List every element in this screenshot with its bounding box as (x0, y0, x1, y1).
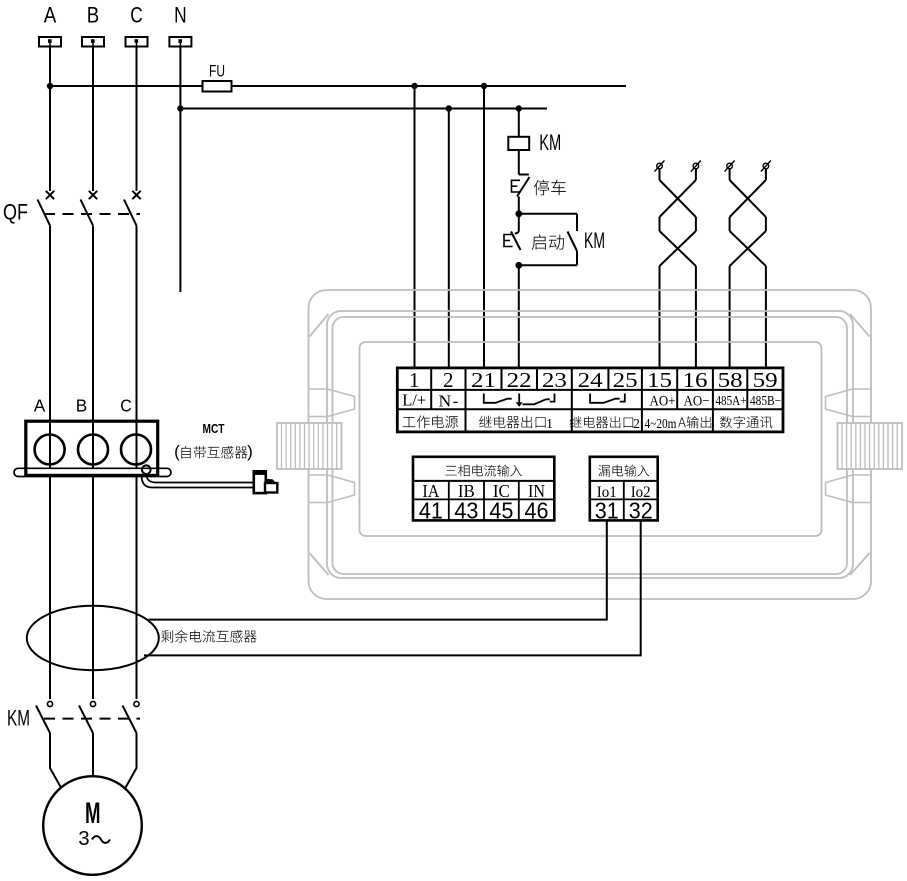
wire A to motor (50, 733, 62, 789)
svg-text:(: ( (174, 442, 180, 461)
junction bus1-term1 (411, 83, 417, 89)
housing corner cut TL (310, 314, 329, 337)
svg-text:25: 25 (613, 368, 638, 392)
relay output 1 contact symbol (484, 394, 512, 403)
wire to terminal 21 (483, 86, 485, 368)
housing clip tabs left (328, 389, 355, 417)
svg-text:B: B (87, 3, 100, 28)
wire parallel bottom (519, 264, 577, 266)
svg-text:43: 43 (454, 498, 478, 524)
svg-text:C: C (130, 3, 143, 28)
wire to terminal 22 (518, 265, 520, 368)
wire phase B top (92, 47, 94, 192)
wire to terminal 2 (448, 109, 450, 369)
svg-text:FU: FU (209, 63, 225, 81)
residual current transformer (27, 606, 159, 670)
terminal strip main (397, 368, 783, 432)
start button 启动 (NO) (515, 214, 519, 234)
MCT cable (147, 475, 255, 483)
wire phase A mid (49, 226, 51, 699)
twisted pair 2 (727, 163, 733, 169)
wire KM-aux stub bottom (576, 251, 578, 265)
twisted pair 1 (657, 163, 663, 169)
svg-text:AO+: AO+ (650, 394, 676, 410)
svg-text:B: B (76, 396, 88, 416)
wire phase C top (136, 47, 138, 192)
label 数字通讯 (720, 416, 773, 428)
label 继电器出口2 (570, 416, 634, 428)
svg-text:A: A (44, 3, 57, 28)
wire stop to node (518, 197, 520, 214)
svg-text:41: 41 (419, 498, 443, 524)
wire bus2 to KM coil (518, 109, 520, 137)
contactor coil KM (508, 137, 529, 150)
housing corner cut BR (850, 553, 870, 575)
housing screw block right (838, 423, 903, 469)
svg-text:): ) (247, 442, 253, 461)
svg-text:KM: KM (539, 130, 561, 155)
junction start-bottom (515, 262, 522, 269)
svg-text:16: 16 (683, 368, 708, 392)
KM auxiliary contact blade (568, 232, 578, 252)
stop button 停车 (NC) (519, 174, 529, 176)
label 剩余电流互感器 (161, 630, 256, 643)
junction A-bus (47, 83, 53, 89)
svg-text:31: 31 (595, 498, 619, 524)
wire KM-aux stub top (576, 214, 578, 231)
svg-text:59: 59 (753, 368, 778, 392)
housing corner cut BL (310, 553, 329, 575)
svg-text:32: 32 (629, 498, 653, 524)
svg-text:N: N (174, 3, 187, 28)
MCT block MCT (26, 421, 158, 475)
housing corner cut TR (850, 314, 870, 337)
supply terminal B (82, 37, 104, 47)
wire bus L (50, 85, 626, 87)
svg-text:4~20m: 4~20m (645, 416, 677, 431)
junction bus2-coil (516, 105, 522, 111)
junction start-top (515, 210, 522, 217)
housing screw block left (277, 423, 342, 469)
svg-text:21: 21 (471, 368, 496, 392)
junction bus1-term21 (481, 83, 487, 89)
wire parallel top (519, 213, 577, 215)
label 启动 (532, 234, 564, 250)
label 继电器出口1 (479, 416, 545, 429)
housing bezel outer (327, 311, 853, 578)
svg-text:46: 46 (525, 498, 549, 524)
svg-text:C: C (120, 396, 132, 416)
svg-text:45: 45 (489, 498, 513, 524)
supply terminal C (126, 37, 148, 47)
wire to terminal 1 (414, 86, 416, 368)
junction N-bus (177, 105, 183, 111)
housing bezel inner (333, 317, 848, 574)
label 停车 (534, 180, 566, 196)
svg-text:N -: N - (439, 392, 459, 411)
svg-text:1: 1 (409, 368, 420, 392)
svg-text:L/+: L/+ (402, 391, 426, 410)
MCT window at x=49.6 (35, 435, 65, 465)
leakage input block (590, 457, 658, 521)
label 工作电源 (403, 415, 458, 428)
svg-text:3: 3 (78, 827, 89, 850)
svg-text:KM: KM (584, 228, 605, 253)
label 三相电流输入 (446, 465, 523, 477)
wire phase B mid (92, 226, 94, 699)
svg-text:KM: KM (7, 706, 30, 731)
svg-text:2: 2 (633, 416, 640, 431)
svg-text:485B−: 485B− (750, 393, 781, 408)
MCT mounting bar (14, 468, 171, 476)
svg-text:485A+: 485A+ (716, 393, 747, 408)
supply terminal N (169, 37, 191, 47)
svg-text:A: A (34, 396, 46, 416)
supply terminal A (39, 37, 61, 47)
svg-text:1: 1 (546, 417, 553, 432)
housing clip tabs right (826, 389, 853, 417)
circuit breaker QF (46, 191, 54, 199)
MCT cable gland (142, 465, 151, 474)
MCT connector plug (254, 471, 266, 493)
housing outer shell (309, 290, 872, 599)
wire phase C mid (136, 226, 138, 699)
wire Io2 to RCT (144, 520, 641, 655)
wire phase A top (49, 47, 51, 192)
fuse FU (203, 81, 232, 92)
label 漏电输入 (598, 465, 649, 477)
svg-text:2: 2 (443, 368, 454, 392)
motor M (43, 776, 142, 875)
svg-text:24: 24 (578, 368, 604, 392)
junction bus2-term2 (446, 105, 452, 111)
wire bus N (180, 108, 547, 110)
housing front panel (360, 342, 822, 536)
svg-text:M: M (85, 797, 101, 830)
svg-text:58: 58 (718, 368, 743, 392)
wire coil to stop button (518, 150, 520, 175)
svg-text:AO−: AO− (684, 394, 710, 410)
current input block (413, 457, 554, 521)
svg-text:23: 23 (542, 368, 567, 392)
svg-text:MCT: MCT (203, 421, 225, 436)
svg-text:QF: QF (3, 200, 28, 225)
MCT window at x=93 (78, 435, 108, 465)
svg-text:22: 22 (507, 368, 532, 392)
wire Io1 to RCT (149, 520, 607, 619)
relay output 2 contact symbol (590, 394, 625, 403)
wire C to motor (125, 733, 137, 789)
MCT window at x=136 (121, 435, 151, 465)
wire neutral N (179, 47, 181, 293)
svg-text:15: 15 (647, 368, 672, 392)
contactor KM main contacts (47, 701, 52, 706)
wire B to motor (92, 733, 94, 777)
